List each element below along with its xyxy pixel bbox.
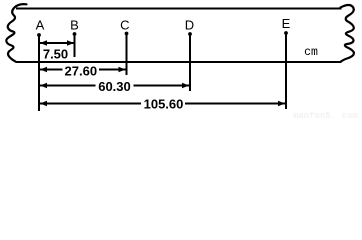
point E label xyxy=(282,16,291,31)
svg-text:27.60: 27.60 xyxy=(65,64,98,79)
point B vertical line xyxy=(74,34,76,57)
point C vertical line xyxy=(126,34,128,76)
point E dot xyxy=(284,31,288,35)
left torn edge squiggle xyxy=(6,4,26,62)
dimension 60.30 line A-D xyxy=(40,83,189,89)
point A dot xyxy=(37,33,41,37)
svg-text:7.50: 7.50 xyxy=(43,47,68,62)
tape top edge xyxy=(16,8,342,10)
point B label xyxy=(70,18,79,33)
tape bottom edge xyxy=(16,61,342,63)
right torn edge squiggle xyxy=(341,5,355,62)
dimension 7.50 line A-B xyxy=(40,40,74,46)
svg-text:E: E xyxy=(282,16,291,31)
svg-text:105.60: 105.60 xyxy=(144,97,184,112)
dimension 105.60 label xyxy=(141,97,185,112)
point A label xyxy=(36,18,45,33)
point A vertical line xyxy=(38,35,40,111)
point B dot xyxy=(73,32,77,36)
svg-text:D: D xyxy=(185,18,194,33)
point D vertical line xyxy=(189,34,191,91)
svg-text:cm: cm xyxy=(304,46,318,59)
unit label cm xyxy=(304,46,318,59)
dimension 7.50 label xyxy=(43,47,68,62)
dimension 60.30 label xyxy=(96,79,134,94)
dimension 27.60 label xyxy=(63,64,100,79)
svg-text:A: A xyxy=(36,18,45,33)
svg-text:60.30: 60.30 xyxy=(98,79,131,94)
point E vertical line xyxy=(285,33,287,109)
svg-text:C: C xyxy=(120,18,129,33)
dimension 27.60 line A-C xyxy=(40,67,126,73)
point C dot xyxy=(125,32,129,36)
point C label xyxy=(120,18,129,33)
dimension 105.60 line A-E xyxy=(40,101,285,107)
point D dot xyxy=(188,32,192,36)
svg-text:B: B xyxy=(70,18,79,33)
point D label xyxy=(185,18,194,33)
svg-text:manfen5. com: manfen5. com xyxy=(293,111,358,120)
watermark manfen5.com xyxy=(293,111,358,121)
